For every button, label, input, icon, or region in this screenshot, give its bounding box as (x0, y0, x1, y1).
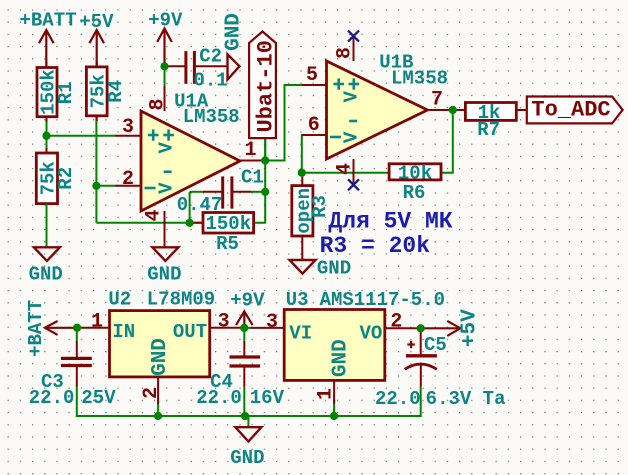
svg-text:GND: GND (147, 264, 181, 286)
svg-text:150k: 150k (205, 213, 251, 235)
svg-text:GND: GND (330, 339, 353, 377)
svg-text:L78M09: L78M09 (147, 289, 215, 311)
power GND flag right of C2 (223, 13, 246, 79)
wire bottom ground rail (76, 415, 421, 417)
svg-text:6: 6 (308, 114, 320, 137)
U1A pin 2 (115, 168, 156, 191)
power +BATT top (19, 10, 76, 68)
svg-text:LM358: LM358 (391, 68, 448, 90)
wire output column pin1 down to R5 right (254, 138, 266, 223)
node junction U3 pin1 rail (330, 412, 338, 420)
node junction C1 right (261, 188, 269, 196)
capacitor C4 (196, 341, 284, 409)
wire U2 pin2 to rail (157, 400, 159, 416)
wire U1A pin8 stub (164, 66, 166, 88)
hierarchical label Ubat-10 (249, 32, 278, 139)
svg-text:5: 5 (306, 64, 318, 87)
svg-text:Для 5V МК: Для 5V МК (328, 209, 452, 235)
svg-text:V: V (341, 91, 363, 103)
svg-text:GND: GND (223, 13, 246, 51)
wire U3 pin1 to rail (333, 400, 335, 416)
resistor R4 (86, 62, 127, 121)
svg-text:R5: R5 (216, 233, 239, 255)
wire pin7 junction to R7 (453, 109, 466, 111)
svg-text:R4: R4 (105, 80, 127, 103)
svg-text:GND: GND (317, 258, 351, 280)
comment text line 1 (328, 209, 452, 235)
no-connect X top (348, 31, 359, 42)
ground below rail (230, 427, 264, 469)
svg-text:IN: IN (112, 321, 135, 343)
svg-text:0.1: 0.1 (193, 70, 227, 92)
U1B pin 4 with no-connect (334, 159, 357, 185)
svg-text:1: 1 (315, 388, 338, 400)
wire C3 top drop (76, 328, 78, 341)
wire U2 out to U3 in (244, 327, 251, 329)
svg-text:+BATT: +BATT (25, 300, 47, 357)
svg-text:2: 2 (140, 387, 163, 399)
svg-text:C1: C1 (241, 167, 264, 189)
svg-text:+5V: +5V (79, 11, 114, 33)
power +9V top (148, 10, 183, 67)
svg-text:1: 1 (91, 311, 103, 334)
U1B pin 5 (302, 64, 344, 90)
U1A pin 3 (115, 116, 159, 141)
ground below U1A pin 4 (147, 247, 181, 285)
svg-text:10k: 10k (398, 162, 432, 184)
U1B pin 6 (302, 114, 341, 137)
svg-text:8: 8 (147, 98, 170, 110)
svg-text:8: 8 (334, 47, 357, 59)
node junction U3 pin2 / C5 / +5V (417, 324, 425, 332)
node junction R5 left / C1 left (186, 219, 194, 227)
svg-text:16V: 16V (250, 387, 285, 409)
svg-text:4: 4 (334, 163, 357, 175)
capacitor C1 (177, 167, 264, 217)
ground below R2 (29, 204, 63, 286)
svg-text:6.3V Ta: 6.3V Ta (426, 388, 506, 410)
hierarchical label To_ADC (527, 97, 623, 124)
op-amp U1A (141, 91, 240, 212)
svg-text:3: 3 (266, 311, 278, 334)
svg-text:VI: VI (289, 323, 312, 345)
svg-text:+9V: +9V (148, 10, 183, 32)
node junction C3/+BATT/U2 pin1 (73, 324, 81, 332)
svg-text:R1: R1 (55, 81, 77, 104)
node junction U1A pin1 (261, 156, 269, 164)
node junction U1B pin7 (449, 106, 457, 114)
svg-text:25V: 25V (81, 387, 116, 409)
wire U1A pin 2 horizontal (96, 185, 114, 187)
U3 pin 1 (315, 380, 338, 404)
svg-text:2: 2 (390, 311, 402, 334)
U1A V+ pin name (156, 129, 178, 153)
resistor R2 (36, 148, 77, 209)
resistor R5 (190, 213, 254, 256)
svg-text:V: V (156, 142, 178, 154)
svg-text:Ubat-10: Ubat-10 (254, 40, 279, 132)
svg-text:U3: U3 (286, 289, 309, 311)
wire U1A output to U1B pin 5 (265, 85, 302, 161)
svg-text:LM358: LM358 (183, 106, 240, 128)
svg-text:1: 1 (244, 139, 256, 162)
power +5V bottom right (421, 309, 482, 347)
svg-text:3: 3 (218, 311, 230, 334)
svg-text:R2: R2 (55, 167, 77, 190)
svg-text:7: 7 (431, 89, 443, 112)
svg-text:OUT: OUT (173, 321, 207, 343)
wire C1 left drop (189, 192, 191, 223)
capacitor C3 (29, 341, 116, 409)
svg-text:U2: U2 (108, 289, 131, 311)
comment text line 2 (320, 233, 431, 259)
svg-text:GND: GND (230, 447, 264, 469)
svg-text:R3 = 20k: R3 = 20k (320, 233, 431, 259)
U3 pin 3 (251, 311, 284, 334)
wire Ubat-10 label stem (264, 138, 266, 160)
resistor R1 (37, 62, 77, 122)
svg-text:VO: VO (360, 323, 383, 345)
svg-text:3: 3 (122, 116, 134, 139)
wire C3 bottom to rail (76, 387, 78, 418)
resistor R3 (292, 174, 331, 260)
resistor R6 (389, 162, 441, 204)
svg-text:4: 4 (143, 209, 166, 221)
wire pin3 net from R1/R2 junction to U1A pin 3 (47, 135, 115, 137)
svg-text:C2: C2 (199, 46, 222, 68)
U1B V+ pin name (341, 78, 363, 102)
wire C1 right to output column (252, 191, 265, 193)
U2 pin 2 (140, 377, 163, 404)
node junction +9V top / C2 / U1A pin 8 (160, 62, 168, 70)
U1B V- pin name (341, 121, 363, 143)
U1A pin 8 (147, 86, 170, 111)
regulator U3 AMS1117-5.0 (284, 289, 445, 380)
op-amp U1B (327, 52, 449, 160)
svg-text:22.0: 22.0 (196, 387, 242, 409)
node junction U2 pin2 rail (154, 412, 162, 420)
U2 pin 3 (210, 311, 245, 334)
wire C4 bottom to rail (243, 387, 245, 417)
node junction pin6/R3/R6 (298, 169, 306, 177)
ground below R3 (290, 258, 352, 280)
capacitor C2 (166, 46, 228, 92)
svg-text:GND: GND (29, 264, 63, 286)
svg-text:22.0: 22.0 (29, 387, 75, 409)
wire R4 bottom down to feedback row (95, 116, 97, 223)
node junction C4 bottom rail (241, 412, 249, 420)
U1A V- pin name (156, 172, 178, 194)
svg-text:+9V: +9V (230, 290, 265, 312)
power +5V top (79, 11, 114, 67)
wire feedback row to R5 left (96, 222, 203, 224)
wire R6 right up to output pin 7 (441, 110, 453, 173)
svg-text:R7: R7 (477, 119, 500, 141)
svg-text:GND: GND (149, 338, 172, 376)
power +BATT bottom left (25, 300, 77, 357)
svg-text:V: V (156, 182, 178, 194)
U1A pin 4 (143, 209, 166, 247)
node junction C4 top / +9V (240, 324, 248, 332)
svg-text:V: V (341, 131, 363, 143)
wire R1 bottom to R2 top (46, 117, 48, 153)
power +9V bottom (230, 290, 265, 328)
node junction R1/R2/pin3 (42, 132, 50, 140)
U1B pin 7 (428, 89, 453, 112)
wire U1B pin 6 to R3 top junction (301, 135, 303, 173)
wire C5 bottom to rail (420, 387, 422, 418)
svg-text:C5: C5 (424, 334, 447, 356)
svg-text:AMS1117-5.0: AMS1117-5.0 (320, 289, 445, 311)
svg-text:+BATT: +BATT (19, 10, 76, 32)
U3 pin 2 (385, 311, 421, 334)
wire rail GND stub (247, 416, 249, 427)
capacitor C5 polarized (375, 328, 506, 410)
node junction pin2 branch (92, 182, 100, 190)
U1A pin 1 (240, 139, 265, 162)
regulator U2 L78M09 (108, 289, 215, 377)
no-connect X bottom (348, 179, 359, 190)
svg-text:2: 2 (122, 168, 134, 191)
U1B pin 8 with no-connect (334, 36, 357, 61)
svg-text:+5V: +5V (459, 309, 482, 347)
resistor R7 (453, 102, 527, 141)
wire R3 junction to R6 left (302, 172, 389, 174)
svg-text:R6: R6 (403, 182, 426, 204)
wire C1 left horizontal (190, 191, 203, 193)
svg-text:To_ADC: To_ADC (531, 98, 610, 123)
svg-text:22.0: 22.0 (375, 388, 421, 410)
wire C4 top drop (243, 328, 245, 341)
U2 pin 1 (77, 311, 109, 334)
